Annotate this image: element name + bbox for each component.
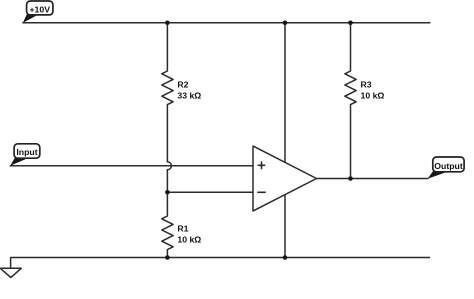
junction output / R3 <box>348 176 353 181</box>
wire top rail (+10V net) <box>23 22 430 24</box>
ground <box>0 268 21 277</box>
op-amp plus symbol <box>258 162 264 168</box>
svg-text:Input: Input <box>16 147 37 157</box>
wire bottom rail to ground <box>11 258 430 269</box>
op-amp U1 <box>253 146 317 211</box>
svg-text:+10V: +10V <box>29 4 50 14</box>
resistor R3 <box>345 23 356 179</box>
resistor R1 <box>162 170 173 258</box>
junction top rail / R3 <box>348 21 353 26</box>
svg-text:10 kΩ: 10 kΩ <box>361 90 385 100</box>
svg-text:Output: Output <box>434 161 463 171</box>
net flag Input <box>10 144 40 166</box>
net flag Output <box>428 157 464 179</box>
wire inverting input line <box>167 191 253 193</box>
wire output line <box>317 178 429 180</box>
wire input line to non-inverting input <box>10 165 253 167</box>
junction bottom rail / R1 <box>165 255 170 260</box>
wire hop over input line <box>167 162 171 170</box>
svg-text:R3: R3 <box>361 79 372 89</box>
svg-text:R1: R1 <box>177 223 188 233</box>
svg-text:33 kΩ: 33 kΩ <box>177 90 201 100</box>
junction bottom rail / V- <box>283 255 288 260</box>
junction top rail / V+ <box>283 21 288 26</box>
junction inverting node <box>165 190 170 195</box>
op-amp minus symbol <box>258 191 265 193</box>
net flag +10V <box>23 1 53 23</box>
wire op-amp V- supply <box>284 195 286 258</box>
junction top rail / R2 <box>165 21 170 26</box>
resistor R2 <box>162 23 173 162</box>
svg-text:R2: R2 <box>177 79 188 89</box>
wire op-amp V+ supply <box>284 23 286 163</box>
svg-text:10 kΩ: 10 kΩ <box>177 235 201 245</box>
